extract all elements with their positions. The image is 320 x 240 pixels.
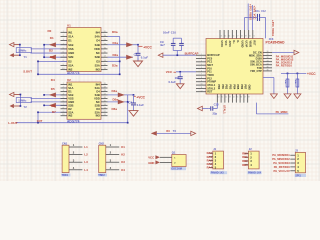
svg-text:3: 3	[201, 60, 202, 62]
signal arrow U1 left pin7	[49, 55, 56, 60]
svg-text:PINHD-1X4: PINHD-1X4	[248, 172, 262, 175]
signal arrow U2 right pin6	[118, 99, 125, 104]
svg-text:6: 6	[63, 100, 64, 102]
oscillator Q1 body	[172, 155, 186, 167]
svg-text:S4B: S4B	[95, 93, 100, 97]
signal arrow U1 right pin7	[126, 55, 133, 60]
svg-text:8: 8	[201, 77, 202, 79]
svg-text:S1B: S1B	[68, 93, 73, 97]
svg-text:16: 16	[104, 97, 106, 99]
net label vertical right	[271, 20, 275, 36]
svg-text:5: 5	[63, 97, 64, 99]
svg-text:S2A: S2A	[68, 64, 73, 68]
svg-text:D2: D2	[68, 107, 72, 111]
svg-text:7: 7	[63, 104, 64, 106]
svg-text:VSS: VSS	[68, 47, 74, 51]
svg-text:D4: D4	[51, 78, 55, 82]
svg-text:D3: D3	[50, 55, 54, 59]
svg-text:D2a: D2a	[113, 53, 119, 57]
svg-text:2: 2	[201, 57, 202, 59]
svg-text:BUFFCAP: BUFFCAP	[185, 51, 199, 55]
svg-text:OUT: OUT	[37, 119, 43, 123]
svg-text:17: 17	[104, 43, 106, 45]
svg-text:+3V3_VCC: +3V3_VCC	[253, 6, 257, 20]
svg-text:PB6: PB6	[240, 85, 243, 90]
connector J2	[245, 151, 260, 169]
svg-text:C10: C10	[171, 31, 177, 35]
svg-text:S4B: S4B	[95, 43, 100, 47]
net labels CN1	[84, 145, 88, 172]
svg-text:D5: D5	[51, 87, 55, 91]
svg-text:D6a: D6a	[112, 107, 118, 111]
svg-text:19: 19	[104, 35, 106, 37]
svg-text:32: 32	[267, 57, 269, 59]
net label BUFFCAP	[185, 51, 199, 55]
svg-text:L.OUT: L.OUT	[8, 121, 17, 125]
svg-text:D3a: D3a	[112, 63, 118, 67]
svg-text:11: 11	[201, 87, 203, 89]
svg-text:RST: RST	[207, 90, 213, 94]
wire +3V3 risers	[248, 4, 252, 31]
crystal Y1 body	[16, 48, 31, 53]
svg-text:+VCC: +VCC	[143, 46, 152, 50]
designator Q1	[172, 151, 176, 155]
port right (hollow)	[294, 50, 299, 54]
wire PD_MISO	[256, 103, 288, 114]
svg-text:RA2: RA2	[207, 158, 213, 162]
svg-text:L2: L2	[84, 153, 88, 157]
wire loop under U1	[38, 36, 120, 74]
wire U1 right r2	[108, 35, 120, 37]
capacitor C12 10nF	[255, 14, 266, 39]
label C12	[255, 10, 266, 13]
port D+ (hollow)	[10, 43, 20, 47]
power VCC label	[166, 70, 176, 74]
signal arrow U1 left pin4	[49, 42, 56, 47]
svg-text:IN4: IN4	[96, 83, 101, 87]
signal arrow U2 right pin4	[118, 93, 125, 98]
svg-text:6: 6	[201, 70, 202, 72]
svg-text:VCC: VCC	[224, 41, 227, 46]
svg-text:OSC16M: OSC16M	[171, 167, 182, 171]
svg-text:D1: D1	[50, 36, 54, 40]
svg-text:IN1: IN1	[68, 83, 73, 87]
svg-text:VSS: VSS	[68, 96, 74, 100]
svg-text:L3: L3	[84, 160, 88, 164]
svg-text:S3B: S3B	[95, 55, 100, 59]
svg-text:RA3: RA3	[207, 162, 213, 166]
svg-text:2: 2	[63, 86, 64, 88]
label C13	[213, 102, 220, 115]
signal arrow U1 right pin4	[126, 42, 133, 47]
svg-text:D0: D0	[48, 29, 52, 33]
net label S.OUT	[23, 69, 32, 73]
junction dots U2 nets	[37, 94, 128, 123]
wire U2 pin4 to bus	[44, 94, 67, 96]
svg-text:19: 19	[104, 86, 106, 88]
port down 1	[270, 94, 277, 99]
svg-text:VCC: VCC	[148, 156, 154, 160]
svg-text:+3V3_VDDA: +3V3_VDDA	[271, 20, 275, 36]
svg-text:0.1uF: 0.1uF	[141, 55, 149, 59]
wire U1 pin5 crystal	[31, 48, 68, 50]
svg-text:20: 20	[249, 36, 251, 38]
wire VCC to U3	[176, 71, 196, 73]
svg-text:12: 12	[201, 90, 203, 92]
wire bus S.OUT	[37, 61, 39, 74]
svg-text:GND: GND	[68, 51, 74, 55]
port D2+ (hollow)	[10, 92, 21, 96]
svg-text:PB1: PB1	[221, 85, 224, 90]
svg-text:C9: C9	[160, 40, 164, 44]
svg-text:C8: C8	[128, 100, 132, 104]
svg-text:13: 13	[104, 107, 106, 109]
svg-text:47: 47	[244, 97, 246, 99]
value CN2	[98, 174, 107, 178]
svg-text:43: 43	[229, 97, 231, 99]
wire bus vertical net to switches	[43, 45, 45, 57]
svg-text:VDD: VDD	[94, 47, 100, 51]
svg-text:PA_VCC/+5V: PA_VCC/+5V	[273, 169, 290, 173]
svg-text:3: 3	[63, 90, 64, 92]
svg-text:Y2R_OTP: Y2R_OTP	[250, 69, 262, 73]
svg-text:D0a: D0a	[112, 30, 118, 34]
svg-text:VCC: VCC	[166, 70, 173, 74]
svg-text:GND: GND	[248, 85, 251, 91]
wire bus S2 left	[37, 112, 39, 122]
svg-text:0.1uF: 0.1uF	[169, 80, 177, 84]
net label RX TX	[166, 130, 176, 133]
svg-text:RB1: RB1	[242, 155, 248, 159]
svg-text:41: 41	[221, 97, 223, 99]
wire sda port	[263, 78, 274, 94]
svg-text:VDD: VDD	[94, 96, 100, 100]
label GND J4	[148, 161, 154, 165]
svg-text:IN4: IN4	[96, 30, 101, 34]
svg-text:C13: C13	[214, 102, 219, 106]
svg-text:14: 14	[104, 56, 106, 58]
svg-text:TBD1: TBD1	[62, 174, 69, 177]
svg-text:XTAL1: XTAL1	[223, 105, 227, 114]
svg-text:PA_SCK/D13: PA_SCK/D13	[273, 161, 290, 165]
svg-text:12: 12	[104, 111, 106, 113]
svg-text:11: 11	[104, 68, 106, 70]
svg-text:15: 15	[104, 52, 106, 54]
svg-text:UGND: UGND	[240, 41, 243, 48]
wire port vertical	[19, 45, 21, 56]
svg-text:21: 21	[253, 36, 255, 38]
svg-text:RA4: RA4	[207, 166, 213, 170]
svg-text:PA_MISO: PA_MISO	[276, 110, 288, 114]
svg-text:42: 42	[225, 97, 227, 99]
svg-text:7: 7	[63, 56, 64, 58]
designator U1	[67, 24, 71, 28]
svg-text:U2: U2	[67, 78, 71, 82]
net labels J1	[207, 151, 213, 169]
power +VCC U2	[134, 96, 146, 100]
label C9 4u7	[160, 40, 165, 47]
net labels SPI right	[276, 54, 294, 67]
wire U1 right r8	[108, 60, 120, 62]
value label ADG774 U2	[67, 120, 80, 124]
svg-text:44: 44	[233, 97, 235, 99]
svg-text:4: 4	[201, 64, 202, 66]
port BUFFCAP (hollow)	[158, 53, 163, 57]
designator J2	[249, 147, 252, 151]
svg-text:5: 5	[63, 47, 64, 49]
port RX (filled)	[151, 131, 157, 136]
schematic sheet background grid	[0, 0, 320, 181]
wire L.OUT horizontal	[16, 122, 128, 124]
svg-text:14: 14	[224, 36, 226, 38]
svg-text:20: 20	[104, 31, 106, 33]
net label OUT	[37, 119, 43, 123]
svg-text:RB3: RB3	[242, 163, 248, 167]
svg-text:D1: D1	[68, 89, 72, 93]
svg-text:D7: D7	[52, 110, 56, 114]
capacitor C11 10n	[178, 72, 183, 84]
svg-text:20: 20	[104, 83, 106, 85]
wire U2 right r6	[108, 101, 128, 103]
svg-text:S3B: S3B	[95, 103, 100, 107]
wire RX TX	[157, 132, 191, 134]
svg-text:D2: D2	[68, 59, 72, 63]
capacitor C8 0.1uF	[131, 95, 136, 111]
svg-text:9: 9	[63, 64, 64, 66]
svg-text:4: 4	[63, 93, 64, 95]
svg-text:1: 1	[63, 31, 64, 33]
label VCC J4	[148, 156, 154, 160]
svg-text:GND: GND	[148, 161, 154, 165]
wire U1 right r7	[108, 56, 134, 58]
svg-text:RA1: RA1	[207, 155, 213, 159]
label C7	[134, 52, 149, 59]
designator U2	[67, 78, 71, 82]
svg-text:K1: K1	[121, 145, 125, 149]
svg-text:ADG774: ADG774	[67, 120, 80, 124]
svg-text:D3: D3	[96, 59, 100, 63]
svg-text:4: 4	[63, 43, 64, 45]
svg-text:18: 18	[241, 36, 243, 38]
net label +3V3 vertical	[248, 4, 256, 20]
value J2	[247, 171, 261, 175]
svg-text:D4: D4	[96, 89, 100, 93]
svg-text:D3: D3	[96, 107, 100, 111]
svg-text:16: 16	[104, 47, 106, 49]
value CN1	[61, 174, 70, 178]
net label D0 U1	[48, 29, 55, 59]
svg-text:S4A: S4A	[95, 86, 100, 90]
svg-text:19: 19	[245, 36, 247, 38]
svg-text:14: 14	[104, 104, 106, 106]
designator IC3	[269, 37, 274, 41]
svg-text:S1A: S1A	[68, 34, 73, 38]
port D2- (filled)	[10, 104, 21, 108]
capacitor pair C9 C10	[171, 38, 184, 55]
svg-text:L1: L1	[84, 145, 88, 149]
svg-text:D4a: D4a	[112, 89, 118, 93]
wire U2 right r4	[108, 94, 134, 96]
svg-text:10: 10	[201, 84, 203, 86]
svg-text:18: 18	[104, 39, 106, 41]
wire U2 pin5 crystal2	[31, 97, 68, 99]
value label Q1	[171, 167, 186, 171]
svg-text:8: 8	[63, 107, 64, 109]
svg-text:Y1: Y1	[24, 55, 28, 59]
svg-text:UCAP: UCAP	[244, 41, 247, 48]
svg-text:PINHD-1X5: PINHD-1X5	[211, 172, 225, 175]
crystal Y2 body	[16, 98, 31, 103]
svg-text:RA0: RA0	[207, 151, 213, 155]
svg-text:1: 1	[63, 83, 64, 85]
svg-text:46: 46	[240, 97, 242, 99]
svg-text:Q1: Q1	[172, 151, 176, 155]
net label PD_MISO	[276, 110, 288, 114]
svg-text:10: 10	[62, 68, 64, 70]
svg-text:18: 18	[104, 90, 106, 92]
svg-text:S.OUT: S.OUT	[23, 69, 32, 73]
svg-text:1: 1	[201, 54, 202, 56]
svg-text:40: 40	[217, 97, 219, 99]
svg-text:PA_MOSI/D11: PA_MOSI/D11	[272, 153, 290, 157]
connector CN2	[99, 143, 120, 172]
svg-text:L4: L4	[84, 168, 88, 172]
svg-text:11: 11	[104, 114, 106, 116]
connector CN1	[62, 143, 82, 172]
junction rail	[287, 73, 299, 75]
junction U2 vcc	[133, 94, 135, 96]
svg-text:15: 15	[228, 36, 230, 38]
svg-text:PA_RST/D10: PA_RST/D10	[274, 165, 291, 169]
resistor R1 10k	[284, 73, 289, 94]
net label vertical xtal	[223, 105, 227, 114]
svg-text:S2B: S2B	[68, 103, 73, 107]
capacitor C7 0.1uF	[136, 45, 141, 61]
svg-text:45: 45	[236, 97, 238, 99]
junction buffcap	[176, 54, 178, 56]
svg-text:13: 13	[220, 36, 222, 38]
svg-text:PB2: PB2	[225, 85, 228, 90]
svg-text:IN1: IN1	[68, 30, 73, 34]
svg-text:IN3: IN3	[96, 114, 101, 118]
ground U2	[129, 111, 138, 117]
value label ADG774 U1	[67, 71, 80, 75]
svg-text:12: 12	[104, 64, 106, 66]
svg-text:SPI1: SPI1	[295, 173, 301, 177]
microcontroller U3	[196, 30, 272, 103]
wire BUFFCAP	[163, 54, 196, 56]
resistor R2 10k	[294, 73, 299, 94]
label C8	[128, 100, 144, 107]
svg-text:D2: D2	[49, 48, 53, 52]
svg-text:Y2: Y2	[24, 105, 28, 109]
junction vcc u3	[179, 71, 181, 73]
wire U2 pin6 crystal2	[31, 101, 68, 103]
svg-text:CN1: CN1	[62, 142, 68, 146]
crystal Y2 label	[24, 105, 28, 109]
wire U1 left r8 sout	[38, 60, 67, 62]
signal arrow U2 left pin4	[49, 93, 56, 98]
svg-text:TBD2: TBD2	[98, 174, 105, 177]
svg-text:PCA9545AD: PCA9545AD	[266, 41, 286, 45]
designator J1	[213, 147, 216, 151]
svg-text:D1: D1	[68, 39, 72, 43]
svg-text:D6: D6	[51, 104, 55, 108]
connector J3	[290, 152, 305, 173]
svg-text:S4A: S4A	[95, 34, 100, 38]
svg-text:RB2: RB2	[242, 159, 248, 163]
port TX (hollow)	[191, 131, 196, 135]
svg-text:+VCC: +VCC	[136, 96, 145, 100]
wire U1 right r4 VCC	[108, 44, 139, 46]
label C11	[169, 76, 180, 84]
svg-text:12MHz: 12MHz	[18, 98, 27, 102]
wire U1 pin4 to bus	[44, 44, 67, 46]
net label D0a U1 right	[112, 30, 118, 67]
pin arrow GND J4	[155, 160, 171, 164]
svg-text:33: 33	[267, 60, 269, 62]
svg-text:PB3: PB3	[229, 85, 232, 90]
svg-text:PA_RST/D10: PA_RST/D10	[276, 64, 293, 68]
svg-text:10: 10	[62, 114, 64, 116]
svg-text:IN2: IN2	[68, 114, 73, 118]
svg-text:7: 7	[201, 74, 202, 76]
svg-text:13: 13	[104, 60, 106, 62]
svg-text:D4: D4	[96, 39, 100, 43]
designator CN1	[62, 142, 68, 146]
svg-text:TX: TX	[173, 130, 177, 133]
svg-text:ADG774: ADG774	[67, 71, 80, 75]
value J3	[295, 173, 306, 177]
pin arrow VCC J4	[155, 155, 171, 159]
svg-text:PB7: PB7	[244, 85, 247, 90]
wire bus right U2	[127, 95, 129, 123]
wire U3 r1 port	[272, 52, 294, 54]
svg-text:2: 2	[63, 35, 64, 37]
svg-text:D1a: D1a	[113, 41, 119, 45]
svg-text:10nF: 10nF	[163, 31, 170, 35]
signal arrow U2 left pin7	[49, 103, 56, 108]
svg-text:AVCC: AVCC	[228, 41, 231, 48]
designator J3	[295, 148, 298, 152]
port D- (filled)	[10, 53, 20, 57]
ground U1	[134, 58, 143, 67]
svg-text:0.1uF: 0.1uF	[137, 103, 145, 107]
svg-text:VBUS: VBUS	[249, 41, 252, 48]
crystal Y1 label	[24, 55, 28, 59]
svg-text:S2A: S2A	[68, 110, 73, 114]
wire xtal cap top	[245, 17, 255, 30]
svg-text:RX: RX	[166, 130, 170, 133]
label C10 10nF	[163, 31, 176, 35]
connector J1	[209, 151, 224, 170]
svg-text:NC: NC	[96, 51, 100, 55]
wire U2 pin7 to bus	[44, 104, 67, 106]
svg-text:35: 35	[267, 66, 269, 68]
svg-text:UVCC: UVCC	[220, 41, 223, 48]
power +VCC U1	[138, 46, 152, 50]
junction dots U1 nets	[37, 44, 120, 75]
svg-text:9: 9	[201, 80, 202, 82]
svg-text:+VCC: +VCC	[307, 72, 316, 76]
svg-text:+3V3_VBUS: +3V3_VBUS	[248, 4, 252, 20]
junction U1 vcc	[137, 44, 139, 46]
svg-text:K4: K4	[121, 168, 125, 172]
ground C11	[176, 84, 184, 89]
wire +VCC rail	[281, 72, 306, 74]
wire U1 pin7 to bus	[44, 56, 67, 58]
svg-text:C12: C12	[261, 10, 266, 13]
